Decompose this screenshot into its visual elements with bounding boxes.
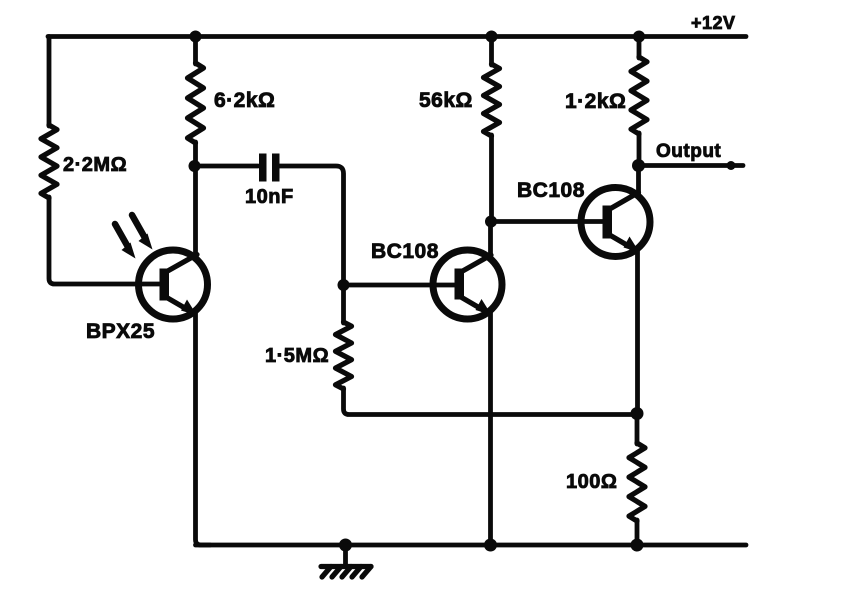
- transistor BC108 (right) emitter diagonal with arrow: [608, 234, 632, 248]
- phototransistor BPX25: light arrow 2: [132, 215, 145, 238]
- wire: 1.5M top from base node: [341, 285, 346, 323]
- transistor BC108 (middle) base bar: [455, 269, 465, 300]
- resistor 6.2k: [188, 63, 204, 143]
- junction: feedback node / 100R top: [631, 407, 644, 420]
- wire: 6.2k bottom to capacitor node: [193, 142, 198, 166]
- transistor BPX25 emitter diagonal with arrow: [165, 297, 190, 312]
- svg-text:Output: Output: [656, 141, 721, 162]
- junction: ground stub on rail: [339, 539, 352, 552]
- svg-text:2·2MΩ: 2·2MΩ: [63, 154, 127, 176]
- wire: rail down to 1.2k top: [637, 37, 642, 59]
- wire: middle base from cap/1.5M node: [344, 283, 460, 288]
- svg-text:100Ω: 100Ω: [566, 471, 617, 493]
- svg-text:6·2kΩ: 6·2kΩ: [214, 89, 275, 112]
- wire: 1.2k bottom to output node: [637, 133, 642, 166]
- wire: capacitor right plate to middle base node: [280, 166, 344, 285]
- wire: feedback node down to 100R: [635, 414, 640, 445]
- wire: middle collector up to node: [488, 222, 493, 260]
- wire: base of right BC108 from node: [491, 219, 607, 224]
- junction: output terminal blob: [727, 161, 736, 170]
- transistor BC108 (right) base bar: [603, 206, 613, 239]
- phototransistor BPX25: light arrow 1: [115, 224, 128, 247]
- junction: output node: [632, 159, 645, 172]
- junction: rail / 1.2k: [633, 31, 645, 43]
- wire: middle emitter down to ground rail: [488, 310, 493, 545]
- junction: 56k / right base / middle collector: [485, 216, 497, 228]
- wire: left branch from rail down to 2.2M top: [47, 37, 52, 127]
- svg-text:1·2kΩ: 1·2kΩ: [565, 90, 626, 113]
- resistor 56k: [484, 64, 500, 136]
- svg-text:56kΩ: 56kΩ: [419, 89, 473, 112]
- junction: 100R / ground rail: [631, 539, 644, 552]
- resistor 100R: [629, 443, 645, 521]
- svg-text:1·5MΩ: 1·5MΩ: [265, 345, 329, 367]
- wire: BPX25 emitter down, corner right to ground rail: [196, 311, 211, 545]
- wire: 2.2M bottom down, corner right to BPX25 base: [49, 197, 164, 284]
- wire: rail down to 56k top: [489, 37, 494, 66]
- wire: output lead: [639, 163, 744, 168]
- junction: middle emitter / ground rail: [484, 539, 497, 552]
- svg-text:+12V: +12V: [691, 13, 736, 33]
- transistor BPX25 collector diagonal: [165, 255, 197, 273]
- wire: node to capacitor left plate: [195, 164, 259, 169]
- svg-text:BC108: BC108: [517, 179, 585, 202]
- junction: middle base node: [338, 279, 350, 291]
- wire: 100R bottom to ground rail: [635, 520, 640, 545]
- wire: right collector up to output node: [636, 166, 641, 197]
- resistor 1.2k: [631, 57, 647, 134]
- transistor BPX25 base bar: [160, 269, 170, 301]
- wire: 1.5M bottom, corner right to feedback node: [344, 388, 638, 415]
- wire: rail down to 6.2k top: [193, 37, 198, 65]
- wire: right emitter down to feedback node: [635, 248, 640, 415]
- junction: rail / 6.2k: [190, 31, 202, 43]
- svg-text:BC108: BC108: [371, 240, 439, 263]
- wire: capacitor node down to BPX25 collector: [193, 166, 198, 258]
- transistor BC108 (middle) circle: [433, 250, 502, 319]
- resistor 1.5M: [336, 322, 352, 389]
- junction: 6.2k bottom / capacitor node: [189, 160, 201, 172]
- ground rail (bottom wire): [196, 543, 747, 548]
- transistor BC108 (middle) emitter diagonal with arrow: [460, 297, 484, 311]
- junction: rail / 56k: [486, 31, 498, 43]
- svg-text:10nF: 10nF: [245, 186, 294, 208]
- transistor BC108 (right) circle: [581, 188, 650, 257]
- ground symbol: [343, 545, 348, 565]
- capacitor C 10nF: [259, 154, 267, 182]
- transistor BPX25 circle: [139, 250, 208, 319]
- wire: 56k bottom down to middle collector node: [489, 135, 494, 222]
- svg-text:BPX25: BPX25: [86, 320, 155, 343]
- power rail +12V (top supply wire): [48, 34, 746, 39]
- transistor BC108 (middle) collector diagonal: [460, 255, 491, 273]
- transistor BC108 (right) collector diagonal: [608, 193, 639, 211]
- resistor 2.2M: [41, 125, 57, 198]
